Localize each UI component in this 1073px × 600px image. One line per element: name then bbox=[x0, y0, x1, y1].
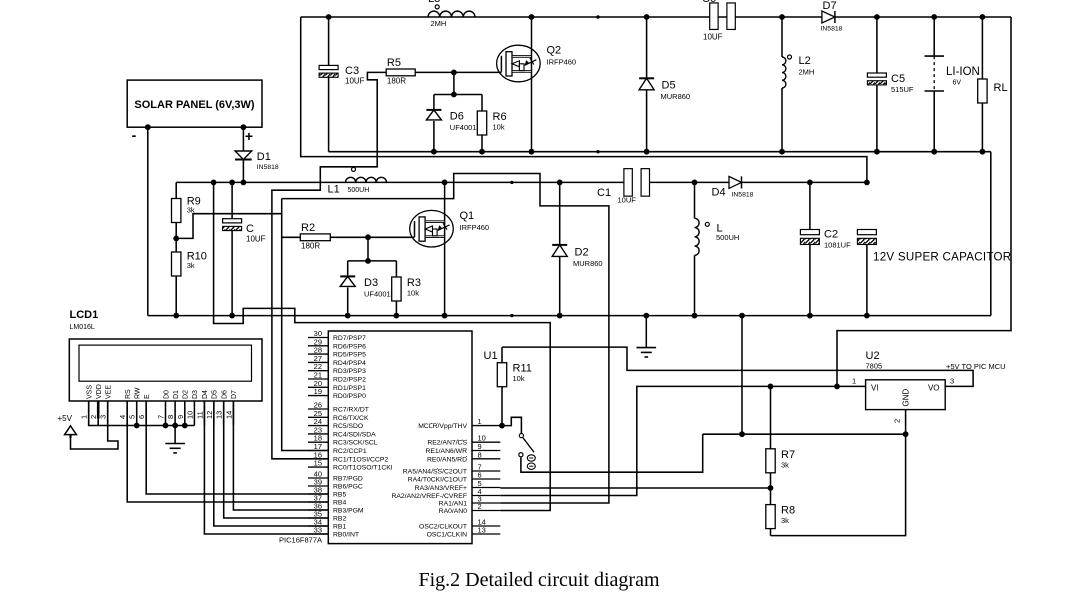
svg-text:RC6/TX/CK: RC6/TX/CK bbox=[333, 415, 369, 422]
svg-text:500UH: 500UH bbox=[716, 233, 739, 242]
svg-text:RC0/T1OSO/T1CKI: RC0/T1OSO/T1CKI bbox=[333, 465, 393, 472]
svg-text:180R: 180R bbox=[301, 242, 320, 251]
svg-text:RE0/AN5/RD: RE0/AN5/RD bbox=[427, 456, 467, 463]
svg-text:3k: 3k bbox=[187, 261, 195, 270]
svg-text:MUR860: MUR860 bbox=[661, 92, 691, 101]
inductor L 500UH bbox=[694, 182, 696, 218]
svg-text:D1: D1 bbox=[257, 151, 271, 163]
capacitor: 12V super capacitor bbox=[857, 230, 876, 235]
wire: LCD D5 to PIC RB1 bbox=[214, 401, 328, 526]
resistor R7 3k bbox=[770, 386, 772, 448]
microcontroller U3 PIC16F877A box bbox=[328, 331, 472, 544]
svg-text:RD0/PSP0: RD0/PSP0 bbox=[333, 393, 366, 400]
svg-text:UF4001: UF4001 bbox=[450, 123, 477, 132]
svg-text:RB2: RB2 bbox=[333, 516, 346, 523]
svg-text:D5: D5 bbox=[212, 390, 219, 399]
svg-text:RD2/PSP2: RD2/PSP2 bbox=[333, 377, 366, 384]
svg-text:4: 4 bbox=[118, 415, 127, 419]
svg-text:11: 11 bbox=[195, 411, 204, 419]
solar panel box SOLAR PANEL (6V,3W) bbox=[127, 80, 262, 127]
svg-text:6V: 6V bbox=[953, 80, 962, 87]
svg-text:R3: R3 bbox=[407, 277, 421, 289]
svg-text:RB4: RB4 bbox=[333, 500, 346, 507]
diode D2 MUR860 bbox=[559, 182, 561, 245]
svg-text:Fig.2 Detailed circuit diagram: Fig.2 Detailed circuit diagram bbox=[418, 569, 659, 591]
svg-text:LCD1: LCD1 bbox=[70, 309, 99, 321]
PIC right pin stubs and labels bbox=[472, 425, 500, 427]
svg-text:LM016L: LM016L bbox=[70, 324, 95, 331]
svg-text:C: C bbox=[246, 223, 254, 235]
wire: top rail (battery charger positive rail) bbox=[301, 16, 1011, 18]
wire: ground drop to U2/switch ground bus bbox=[741, 316, 743, 435]
svg-text:L3: L3 bbox=[428, 0, 440, 5]
svg-text:D2: D2 bbox=[183, 390, 190, 399]
svg-text:VEE: VEE bbox=[106, 385, 113, 399]
resistor R10 3k bbox=[175, 223, 177, 253]
wire: LCD D4 to PIC RB0 bbox=[204, 401, 328, 534]
svg-text:8: 8 bbox=[478, 450, 482, 459]
capacitor C6 10UF (label cut off) bbox=[710, 3, 718, 30]
diode D3 UF4001 bbox=[347, 261, 349, 277]
wire: R9/R10 divider tap bbox=[176, 214, 282, 239]
svg-text:500UH: 500UH bbox=[348, 187, 370, 194]
svg-text:3: 3 bbox=[99, 415, 108, 419]
svg-text:OSC2/CLKOUT: OSC2/CLKOUT bbox=[419, 524, 467, 531]
svg-text:RC2/CCP1: RC2/CCP1 bbox=[333, 448, 367, 455]
svg-text:RC7/RX/DT: RC7/RX/DT bbox=[333, 407, 369, 414]
svg-text:R11: R11 bbox=[513, 363, 532, 375]
svg-text:1: 1 bbox=[478, 417, 482, 426]
svg-text:3k: 3k bbox=[781, 460, 789, 469]
svg-text:D0: D0 bbox=[163, 390, 170, 399]
svg-text:RD1/PSP1: RD1/PSP1 bbox=[333, 385, 366, 392]
svg-text:2: 2 bbox=[893, 419, 902, 423]
svg-text:2: 2 bbox=[89, 415, 98, 419]
svg-text:L2: L2 bbox=[799, 55, 811, 67]
wire: LCD E to PIC RB5 bbox=[146, 401, 328, 494]
svg-text:RD4/PSP4: RD4/PSP4 bbox=[333, 360, 366, 367]
svg-text:RA4/T0CKI/C1OUT: RA4/T0CKI/C1OUT bbox=[408, 477, 467, 484]
svg-text:3: 3 bbox=[950, 377, 954, 386]
svg-text:13: 13 bbox=[215, 411, 224, 419]
wire: L1 feed from stage1 (R5 left lead path) bbox=[272, 72, 386, 458]
svg-text:7: 7 bbox=[157, 415, 166, 419]
svg-text:12: 12 bbox=[205, 411, 214, 419]
svg-text:RA1/AN1: RA1/AN1 bbox=[439, 501, 468, 508]
wire: divider sense jog to PIC AN1 bbox=[282, 174, 609, 504]
resistor R3 10k bbox=[395, 261, 397, 277]
diode D5 MUR860 bbox=[646, 17, 648, 78]
diode D1 IN5818 (solar plus) bbox=[242, 127, 244, 151]
svg-text:19: 19 bbox=[314, 387, 322, 396]
svg-text:PIC16F877A: PIC16F877A bbox=[279, 536, 322, 545]
capacitor C 10UF bbox=[231, 182, 233, 218]
switch (reset) bbox=[502, 417, 521, 433]
svg-text:10UF: 10UF bbox=[618, 196, 637, 205]
LCD pin stubs bbox=[88, 401, 90, 426]
svg-text:IRFP460: IRFP460 bbox=[460, 223, 490, 232]
LCD screen bbox=[79, 345, 252, 381]
svg-text:15: 15 bbox=[314, 459, 322, 468]
capacitor C1 10UF bbox=[624, 169, 632, 197]
wire: R7/R8 tap to PIC RA3 bbox=[500, 487, 770, 489]
svg-text:R6: R6 bbox=[493, 111, 507, 123]
svg-text:9: 9 bbox=[176, 415, 185, 419]
svg-text:VO: VO bbox=[928, 384, 940, 393]
wire: LCD RS to PIC RB4 bbox=[127, 401, 328, 502]
svg-text:C3: C3 bbox=[345, 65, 359, 77]
wire: switch bottom to ground bus bbox=[521, 434, 703, 472]
resistor R2 180R bbox=[300, 234, 330, 241]
svg-text:2MH: 2MH bbox=[431, 19, 447, 28]
wire: stage1 bottom rail bbox=[329, 151, 991, 153]
svg-text:IN5818: IN5818 bbox=[257, 164, 279, 171]
capacitor C3 10UF bbox=[328, 17, 330, 65]
diode D6 UF4001 bbox=[433, 95, 435, 110]
wire: +5V from U2 VO to R11/MCLR bbox=[502, 347, 973, 386]
svg-text:RS: RS bbox=[125, 389, 132, 399]
svg-text:14: 14 bbox=[224, 411, 233, 419]
svg-text:D4: D4 bbox=[202, 390, 209, 399]
resistor R11 10k bbox=[501, 347, 503, 363]
wire: stage1 left boundary down to supercap feed line bbox=[301, 17, 867, 182]
battery LI-ION 6V bbox=[933, 17, 935, 56]
svg-text:VSS: VSS bbox=[87, 385, 94, 399]
wire: VEE to +5V jog bbox=[71, 401, 119, 449]
resistor R6 10k bbox=[481, 95, 483, 112]
svg-text:RL: RL bbox=[994, 82, 1008, 94]
transistor Q2 IRFP460 bbox=[531, 17, 533, 152]
svg-text:8: 8 bbox=[166, 415, 175, 419]
svg-text:RB0/INT: RB0/INT bbox=[333, 532, 359, 539]
svg-text:D3: D3 bbox=[364, 277, 378, 289]
PIC left pin stubs and labels bbox=[308, 337, 328, 339]
svg-text:10UF: 10UF bbox=[246, 235, 266, 244]
svg-text:RD7/PSP7: RD7/PSP7 bbox=[333, 335, 366, 342]
svg-text:C2: C2 bbox=[824, 229, 838, 241]
capacitor C5 515UF bbox=[876, 17, 878, 73]
svg-text:RC3/SCK/SCL: RC3/SCK/SCL bbox=[333, 440, 378, 447]
diode D4 IN5818 bbox=[729, 176, 742, 188]
svg-text:RB7/PGD: RB7/PGD bbox=[333, 476, 363, 483]
svg-text:10UF: 10UF bbox=[703, 33, 723, 42]
svg-text:6: 6 bbox=[137, 415, 146, 419]
svg-text:RB6/PGC: RB6/PGC bbox=[333, 484, 363, 491]
svg-text:OSC1/CLKIN: OSC1/CLKIN bbox=[427, 532, 468, 539]
svg-text:D7: D7 bbox=[231, 390, 238, 399]
svg-text:+5V: +5V bbox=[58, 414, 73, 423]
inductor L1 500UH bbox=[346, 177, 387, 182]
svg-text:RD3/PSP3: RD3/PSP3 bbox=[333, 368, 366, 375]
svg-text:IRFP460: IRFP460 bbox=[547, 58, 577, 67]
svg-text:RA5/AN4/SS/C2OUT: RA5/AN4/SS/C2OUT bbox=[403, 469, 467, 476]
svg-text:IN5818: IN5818 bbox=[821, 26, 843, 33]
svg-text:C5: C5 bbox=[891, 73, 905, 85]
resistor R9 3k bbox=[175, 182, 177, 198]
LCD VDD stub (thick) bbox=[97, 401, 100, 419]
capacitor C2 1081UF bbox=[809, 182, 811, 229]
svg-text:GND: GND bbox=[902, 389, 911, 407]
svg-text:10UF: 10UF bbox=[345, 77, 365, 86]
wire: solar sense to PIC AN0 (with jogs) bbox=[214, 182, 551, 510]
svg-text:12V SUPER CAPACITOR: 12V SUPER CAPACITOR bbox=[873, 251, 1011, 264]
wire: Q2 gate clamp tee bbox=[453, 72, 455, 94]
net tick marks bbox=[596, 15, 599, 18]
svg-text:7805: 7805 bbox=[866, 362, 883, 371]
svg-text:E: E bbox=[144, 394, 151, 399]
svg-text:VI: VI bbox=[871, 384, 879, 393]
svg-text:RW: RW bbox=[135, 387, 142, 399]
svg-text:IN5818: IN5818 bbox=[732, 192, 754, 199]
svg-text:RC4/SDI/SDA: RC4/SDI/SDA bbox=[333, 431, 376, 438]
svg-text:1: 1 bbox=[852, 377, 856, 386]
svg-text:RC5/SDO: RC5/SDO bbox=[333, 423, 363, 430]
svg-text:+5V TO PIC MCU: +5V TO PIC MCU bbox=[946, 362, 1006, 371]
svg-text:R5: R5 bbox=[387, 57, 401, 69]
svg-text:UF4001: UF4001 bbox=[364, 290, 391, 299]
resistor RL bbox=[981, 17, 983, 79]
svg-text:Q2: Q2 bbox=[547, 45, 562, 57]
svg-text:5: 5 bbox=[128, 415, 137, 419]
svg-text:RC1/T1OSI/CCP2: RC1/T1OSI/CCP2 bbox=[333, 456, 388, 463]
svg-text:D1: D1 bbox=[173, 390, 180, 399]
svg-text:R2: R2 bbox=[301, 222, 315, 234]
svg-text:RA3/AN3/VREF+: RA3/AN3/VREF+ bbox=[415, 485, 467, 492]
svg-text:C1: C1 bbox=[597, 187, 611, 199]
svg-text:RA0/AN0: RA0/AN0 bbox=[439, 508, 468, 515]
svg-text:D7: D7 bbox=[823, 0, 837, 12]
svg-text:RB5: RB5 bbox=[333, 492, 346, 499]
svg-text:13: 13 bbox=[478, 526, 486, 535]
transistor Q1 IRFP460 bbox=[444, 182, 446, 315]
svg-text:2: 2 bbox=[478, 502, 482, 511]
wire: solar minus to ground rail bbox=[147, 127, 149, 315]
svg-text:Q1: Q1 bbox=[460, 210, 475, 222]
svg-text:1: 1 bbox=[80, 415, 89, 419]
svg-text:33: 33 bbox=[314, 526, 322, 535]
svg-text:RD5/PSP5: RD5/PSP5 bbox=[333, 352, 366, 359]
wire: U2 VI input line bbox=[500, 386, 865, 495]
wire: stage2 ground rail bbox=[148, 315, 991, 317]
U2 GND pin down bbox=[771, 410, 906, 536]
wire: ground bus to U2 GND bbox=[703, 433, 906, 435]
inductor L2 2MH bbox=[781, 17, 783, 57]
wire: right riser from top rail down to U2 input feed bbox=[837, 17, 1011, 386]
resistor R5 180R bbox=[386, 69, 415, 76]
svg-text:U1: U1 bbox=[484, 350, 498, 362]
svg-text:R7: R7 bbox=[781, 449, 795, 461]
svg-text:10k: 10k bbox=[407, 289, 419, 298]
svg-text:RE2/AN7/CS: RE2/AN7/CS bbox=[427, 440, 467, 447]
svg-text:10: 10 bbox=[185, 411, 194, 419]
svg-text:515UF: 515UF bbox=[891, 85, 914, 94]
svg-text:1081UF: 1081UF bbox=[824, 241, 851, 250]
svg-text:RB3/PGM: RB3/PGM bbox=[333, 508, 364, 515]
diode D7 IN5818 bbox=[822, 11, 835, 23]
ground symbol (LCD) bbox=[174, 426, 176, 444]
wire: R2 right to Q1 gate bbox=[330, 236, 414, 238]
svg-text:D6: D6 bbox=[222, 390, 229, 399]
resistor R8 3k bbox=[766, 505, 775, 529]
ground symbol (main) bbox=[645, 316, 647, 348]
wire: R5 right to Q2 gate bbox=[415, 71, 501, 73]
svg-text:3k: 3k bbox=[781, 516, 789, 525]
svg-text:C6: C6 bbox=[702, 0, 716, 5]
svg-text:+: + bbox=[245, 128, 253, 144]
svg-text:VDD: VDD bbox=[96, 384, 103, 399]
svg-text:10k: 10k bbox=[493, 123, 505, 132]
wire: LCD D7 to PIC RB3 bbox=[233, 401, 328, 510]
svg-text:RB1: RB1 bbox=[333, 524, 346, 531]
wire: solar node horizontal (L1 input) bbox=[176, 181, 624, 183]
svg-text:MCLR/Vpp/THV: MCLR/Vpp/THV bbox=[418, 423, 467, 430]
inductor L3 (2MH, top, label cut off) bbox=[428, 11, 475, 17]
wire: LCD ground bus bbox=[89, 401, 195, 426]
svg-text:L1: L1 bbox=[328, 184, 340, 196]
svg-text:RE1/AN6/WR: RE1/AN6/WR bbox=[425, 448, 467, 455]
svg-text:180R: 180R bbox=[387, 77, 406, 86]
wire: right riser from bottom rail to stage2 ground rail bbox=[990, 152, 992, 316]
svg-text:10k: 10k bbox=[513, 374, 525, 383]
svg-text:2MH: 2MH bbox=[799, 68, 815, 77]
wire: Q1 gate clamp tee bbox=[367, 237, 369, 261]
wire: LCD D6 to PIC RB2 bbox=[224, 401, 329, 518]
svg-text:MUR860: MUR860 bbox=[573, 259, 603, 268]
svg-text:RD6/PSP6: RD6/PSP6 bbox=[333, 343, 366, 350]
svg-text:SOLAR PANEL (6V,3W): SOLAR PANEL (6V,3W) bbox=[134, 99, 255, 111]
svg-text:D6: D6 bbox=[450, 111, 464, 123]
LCD box bbox=[69, 339, 262, 401]
wire: R2 gate drive from PIC CCP1 bbox=[282, 199, 329, 451]
svg-text:D5: D5 bbox=[662, 80, 676, 92]
svg-text:U2: U2 bbox=[866, 350, 880, 362]
svg-text:RA2/AN2/VREF-/CVREF: RA2/AN2/VREF-/CVREF bbox=[391, 493, 467, 500]
svg-text:-: - bbox=[132, 127, 137, 143]
svg-text:LI-ION: LI-ION bbox=[946, 66, 980, 78]
svg-text:R8: R8 bbox=[781, 505, 795, 517]
svg-text:D3: D3 bbox=[192, 390, 199, 399]
svg-text:D4: D4 bbox=[712, 187, 726, 199]
svg-text:D2: D2 bbox=[575, 247, 589, 259]
